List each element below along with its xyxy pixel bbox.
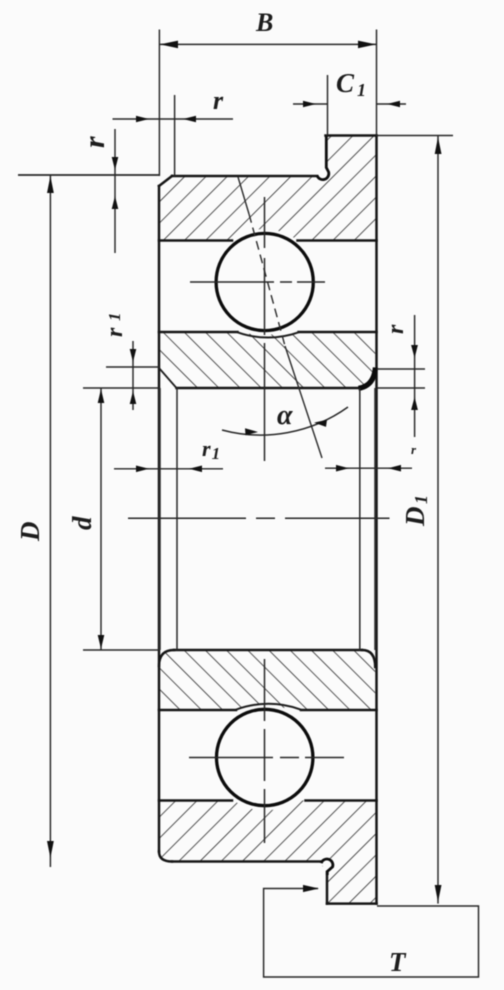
dimension T loop bottom right xyxy=(264,889,479,978)
svg-text:r: r xyxy=(102,327,128,337)
top relief groove outline xyxy=(317,136,329,180)
dimension r1 horizontal lower left xyxy=(114,468,223,470)
svg-text:r: r xyxy=(383,324,409,334)
svg-text:d: d xyxy=(67,516,97,530)
outer ring top section hatched area xyxy=(159,136,377,241)
dimension r left vertical xyxy=(18,129,159,253)
dimension C1 xyxy=(293,75,406,136)
top ball vertical centerline xyxy=(264,197,266,248)
bottom ball horizontal centerline xyxy=(189,757,273,759)
svg-text:D: D xyxy=(15,522,45,543)
dimension D1 right xyxy=(377,136,454,904)
angle alpha arc xyxy=(222,407,348,435)
dimension r1 left vertical xyxy=(106,341,159,410)
centerlines xyxy=(128,197,390,843)
white cutout bottom ball xyxy=(212,705,318,811)
inner ring bottom section hatched area xyxy=(159,650,375,710)
white cutout top raceway groove xyxy=(237,330,299,333)
outer diameter surface top xyxy=(172,175,317,178)
top raceway groove arc in inner ring xyxy=(238,332,299,337)
white cutout bottom relief groove xyxy=(321,857,331,867)
white cutout top relief groove xyxy=(318,172,328,182)
dimension r right vertical xyxy=(377,315,425,437)
contact angle line xyxy=(238,177,322,458)
bottom relief groove outline xyxy=(321,859,333,875)
svg-text:r: r xyxy=(78,136,111,148)
inner ring top-right rounded corner r (thick) xyxy=(359,368,376,389)
top-left chamfer outer ring xyxy=(159,176,172,186)
dimension r top horizontal xyxy=(113,95,234,176)
white cutout bottom raceway groove xyxy=(236,708,301,711)
dimension D left xyxy=(49,175,51,867)
top ball horizontal centerline xyxy=(190,281,274,283)
inner ring surface line bottom xyxy=(159,709,236,712)
inner ring bottom top-left rounded corner xyxy=(159,650,174,666)
svg-text:1: 1 xyxy=(411,495,431,504)
flange bottom surface xyxy=(327,902,377,905)
inner ring top-left chamfer line r1 xyxy=(159,368,177,388)
inner ring right face line through bore xyxy=(374,388,376,650)
dimension r right horizontal xyxy=(325,467,412,469)
right face of rings and flange xyxy=(375,136,378,904)
inner ring left face line through bore xyxy=(159,388,161,650)
inner ring bore line top xyxy=(177,387,361,390)
left face of rings xyxy=(158,186,161,852)
outer ring bore line bottom xyxy=(159,799,232,802)
main axis centerline xyxy=(128,517,246,519)
chamfer extension line right x=359.8 xyxy=(359,388,361,650)
ball top xyxy=(216,233,313,330)
white cutout top ball xyxy=(212,229,318,335)
svg-text:D: D xyxy=(400,507,430,528)
bottom ball vertical centerline xyxy=(264,659,266,721)
svg-text:B: B xyxy=(255,8,273,37)
svg-text:T: T xyxy=(389,947,407,977)
inner ring surface line top xyxy=(159,331,238,334)
outer ring bore line top xyxy=(159,239,232,242)
svg-text:α: α xyxy=(277,400,293,431)
outer ring bottom section hatched area xyxy=(159,801,377,904)
flange top surface xyxy=(326,134,377,137)
chamfer extension line left x=177 xyxy=(176,388,178,650)
inner ring bore line bottom xyxy=(174,649,362,652)
face extension lines through bore region xyxy=(160,388,375,650)
dimension d left xyxy=(83,388,159,650)
inner ring top section hatched area xyxy=(159,332,375,388)
svg-text:1: 1 xyxy=(105,313,124,322)
bottom-left rounded corner outer ring xyxy=(159,852,172,862)
bottom raceway groove arc in inner ring xyxy=(236,704,301,710)
svg-text:r: r xyxy=(213,86,224,115)
inner ring bottom top-right rounded corner xyxy=(362,650,375,667)
outer diameter surface bottom xyxy=(172,860,322,863)
ball bottom xyxy=(217,709,313,805)
dimension B xyxy=(159,30,376,177)
flange left face bottom xyxy=(326,872,329,904)
